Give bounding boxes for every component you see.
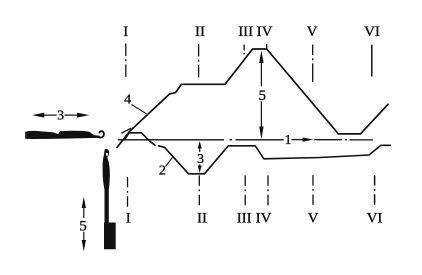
dimension 3 left right shaft bbox=[65, 114, 79, 116]
leader for label 2 bbox=[166, 157, 173, 166]
svg-text:VI: VI bbox=[367, 210, 383, 226]
section line I bottom (dash-dot) bbox=[127, 177, 129, 207]
centerline dash far right bbox=[350, 139, 374, 141]
centerline bump (cross-section mark) bbox=[124, 133, 148, 140]
section line V top (dash-dot) bbox=[312, 45, 314, 83]
section line VI bottom (dash-dot) bbox=[374, 175, 376, 207]
svg-text:V: V bbox=[308, 210, 319, 226]
vertical blade silhouette bbox=[103, 149, 116, 250]
svg-text:III: III bbox=[237, 210, 252, 226]
section line IV top (tick) bbox=[266, 44, 268, 49]
svg-text:IV: IV bbox=[256, 210, 272, 226]
centerline dash bbox=[236, 139, 284, 141]
svg-text:5: 5 bbox=[79, 218, 87, 234]
svg-text:VI: VI bbox=[364, 24, 380, 40]
dimension 5 (peak height) shaft upper bbox=[260, 61, 262, 86]
dimension 3 left right arrowhead bbox=[77, 113, 89, 118]
section line VI top (solid) bbox=[371, 45, 373, 77]
horizontal blade silhouette bbox=[25, 131, 100, 139]
svg-text:I: I bbox=[126, 210, 131, 226]
direction arrow shaft bbox=[292, 139, 307, 141]
dimension 5 left shaft lower bbox=[83, 232, 85, 242]
svg-text:IV: IV bbox=[257, 24, 273, 40]
section line IV bottom (dash-dot) bbox=[267, 175, 269, 205]
svg-text:II: II bbox=[197, 210, 207, 226]
svg-text:II: II bbox=[195, 24, 205, 40]
svg-text:V: V bbox=[307, 24, 318, 40]
svg-text:3: 3 bbox=[197, 152, 204, 167]
dimension 3 shaft upper bbox=[199, 148, 201, 153]
upper tool profile (wedge 4) bbox=[117, 49, 388, 148]
svg-text:5: 5 bbox=[258, 88, 266, 104]
vertical blade hook notch bbox=[106, 153, 108, 156]
dimension 5 down arrowhead bbox=[259, 127, 263, 140]
dimension 5 left down arrowhead bbox=[82, 240, 86, 251]
section line III bottom (dash-dot) bbox=[244, 175, 246, 205]
svg-text:4: 4 bbox=[124, 92, 131, 107]
dimension 5 (left, blade height) up arrowhead bbox=[82, 197, 86, 208]
svg-text:3: 3 bbox=[57, 109, 64, 124]
section line II bottom (dash-dot) bbox=[198, 175, 200, 206]
lower tool profile (wedge 2) bbox=[159, 145, 391, 174]
leader for label 4 bbox=[132, 105, 147, 114]
dimension 3 shaft lower bbox=[199, 165, 201, 167]
lower tool profile start (wedge 2) bbox=[149, 140, 155, 145]
centerline dash right of arrow bbox=[314, 139, 342, 141]
centerline dash left bbox=[118, 139, 224, 141]
section line V bottom (dash-dot) bbox=[312, 175, 314, 206]
section line I top (dash-dot) bbox=[125, 44, 127, 81]
horizontal blade curl tip bbox=[99, 131, 104, 137]
dimension 3 left shaft bbox=[43, 114, 57, 116]
stray stroke at crossing bbox=[121, 128, 131, 133]
centerline dot bbox=[230, 139, 233, 141]
svg-text:III: III bbox=[238, 24, 253, 40]
section line II top (dash-dot) bbox=[198, 44, 200, 81]
svg-text:2: 2 bbox=[159, 164, 166, 179]
dimension 3 down arrowhead bbox=[198, 166, 202, 173]
direction arrow head bbox=[303, 137, 314, 141]
dimension 5 left shaft upper bbox=[83, 207, 85, 219]
dimension 3 (left, blade travel) left arrowhead bbox=[32, 113, 44, 118]
dimension 5 up arrowhead bbox=[259, 50, 263, 63]
svg-text:1: 1 bbox=[285, 133, 292, 148]
dimension 5 shaft lower bbox=[260, 101, 262, 128]
svg-text:I: I bbox=[123, 24, 128, 40]
centerline dot right bbox=[345, 139, 347, 141]
dimension 3 (groove depth) up arrowhead bbox=[198, 141, 202, 149]
section line III top (dash-dot) bbox=[243, 45, 245, 58]
